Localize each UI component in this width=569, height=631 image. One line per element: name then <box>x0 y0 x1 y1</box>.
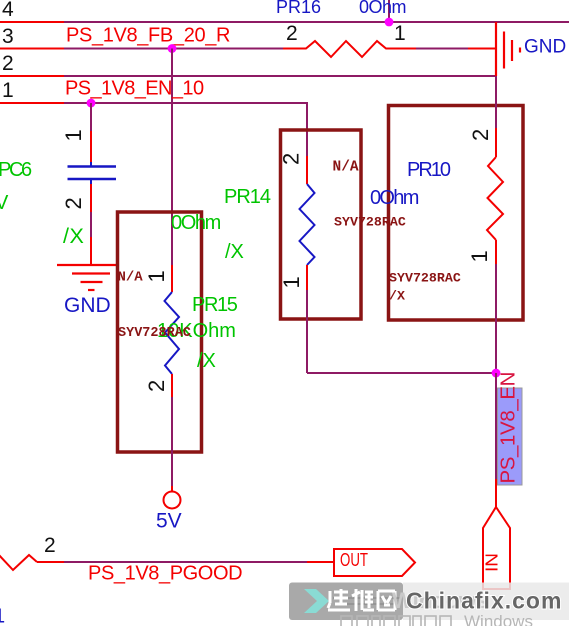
svg-text:1: 1 <box>279 276 304 288</box>
wire horizontal to EN node <box>307 372 496 374</box>
wire PGOOD red stub <box>37 561 64 563</box>
capacitor PC6 bottom lead <box>90 184 92 212</box>
wire EN node red to port <box>495 479 497 507</box>
svg-text:OUT: OUT <box>340 550 368 570</box>
wire PR15 to 5V purple <box>171 397 173 486</box>
svg-text:2: 2 <box>144 380 169 392</box>
svg-text:1: 1 <box>61 129 86 141</box>
svg-text:N/A: N/A <box>333 160 359 176</box>
svg-text:V: V <box>0 192 9 214</box>
svg-text:1: 1 <box>2 79 14 102</box>
wire EN red stub <box>0 102 64 104</box>
svg-text:GND: GND <box>524 37 566 58</box>
wire EN node down purple <box>495 373 497 479</box>
svg-text:PR15: PR15 <box>192 294 238 316</box>
wire FB purple right <box>416 48 468 50</box>
ground G1 bar3 <box>519 48 521 53</box>
component box PR14 <box>281 130 362 319</box>
capacitor PC6 blue lead top <box>90 162 92 167</box>
watermark light band <box>403 583 569 621</box>
ground G2 bar1 <box>57 264 119 266</box>
resistor PR10 body red <box>487 157 503 240</box>
wire net2 red stub <box>0 75 64 77</box>
ground G1 bar1 <box>503 32 505 69</box>
svg-text:PS_1V8_EN: PS_1V8_EN <box>497 372 520 484</box>
watermark teal chevron <box>304 589 329 613</box>
port OUT shape <box>334 549 415 576</box>
svg-text:2: 2 <box>279 153 304 165</box>
watermark bottom gray squares <box>341 616 451 627</box>
wire vertical to net4 <box>388 0 390 22</box>
svg-text:IN: IN <box>482 553 502 572</box>
wire red to 5V circle <box>171 486 173 492</box>
resistor PR16 body <box>283 41 416 57</box>
watermark underlying gray strokes <box>333 598 400 604</box>
svg-text:GND: GND <box>64 294 111 317</box>
resistor PR15 body blue <box>165 292 180 374</box>
watermark gray band <box>289 583 403 621</box>
ground G2 bar3 <box>81 281 103 283</box>
resistor partial bottom left <box>0 554 37 570</box>
ground G1 bar2 <box>511 40 513 61</box>
junction dot EN node <box>492 369 501 378</box>
wire net4 red stub <box>0 21 64 23</box>
PR15 top lead red <box>171 265 173 292</box>
svg-text:SYV728RAC: SYV728RAC <box>118 326 191 341</box>
svg-text:0Ohm: 0Ohm <box>370 187 419 209</box>
wire PR14 down purple <box>306 290 308 373</box>
wire net4 purple <box>64 21 569 23</box>
svg-text:PR16: PR16 <box>276 0 321 17</box>
wire FB purple left <box>64 48 283 50</box>
svg-text:3: 3 <box>2 25 14 48</box>
ground G2 bar4 <box>88 289 95 291</box>
wire PR10 top purple <box>495 76 497 128</box>
svg-text:/X: /X <box>389 289 405 304</box>
watermark glyph xun <box>328 589 350 610</box>
capacitor PC6 blue lead bottom <box>90 179 92 184</box>
svg-text:/X: /X <box>197 350 216 372</box>
component box PR10 <box>389 106 524 321</box>
power symbol 5V circle <box>164 492 181 509</box>
svg-text:Windows: Windows <box>464 612 533 626</box>
capacitor PC6 top lead <box>90 103 92 131</box>
svg-text:2: 2 <box>44 534 56 557</box>
svg-text:5V: 5V <box>156 510 182 533</box>
svg-text:2: 2 <box>468 129 493 141</box>
wire FB red stub <box>0 48 64 50</box>
PR14 top lead red <box>306 156 308 184</box>
component box PR15 <box>118 212 202 452</box>
PR10 top lead red <box>495 128 497 157</box>
svg-text:SYV728RAC: SYV728RAC <box>334 215 406 230</box>
svg-text:0Ohm: 0Ohm <box>359 0 406 17</box>
wire FB red to gnd <box>468 48 497 50</box>
selection highlight box <box>498 388 523 485</box>
svg-text:PR14: PR14 <box>224 186 271 208</box>
svg-text:PS_1V8_PGOOD: PS_1V8_PGOOD <box>88 563 242 585</box>
watermark glyph wang <box>378 591 395 610</box>
svg-text:0Ohm: 0Ohm <box>171 212 221 234</box>
svg-text:2: 2 <box>286 22 298 45</box>
junction dot on EN <box>87 99 96 108</box>
svg-text:1: 1 <box>0 606 5 627</box>
svg-text:1: 1 <box>144 270 169 282</box>
svg-text:N/A: N/A <box>118 270 144 286</box>
PR15 bottom lead red <box>171 374 173 397</box>
ground G1 stem <box>495 22 497 76</box>
wire PGOOD purple <box>64 561 307 563</box>
resistor PR14 body blue <box>300 184 315 265</box>
wire PR10 down purple <box>495 264 497 373</box>
svg-text:PS_1V8_EN_10: PS_1V8_EN_10 <box>65 78 204 100</box>
wire EN purple <box>64 103 307 156</box>
svg-text:/X: /X <box>225 241 244 263</box>
PR10 bottom lead red <box>495 240 497 264</box>
ground G2 bar2 <box>72 272 110 274</box>
junction dot on net4 <box>385 18 394 27</box>
svg-text:1: 1 <box>394 22 406 45</box>
svg-text:Chinafix.com: Chinafix.com <box>406 588 562 614</box>
svg-text:2: 2 <box>61 197 86 209</box>
svg-text:PC6: PC6 <box>0 159 32 181</box>
svg-text:PS_1V8_FB_20_R: PS_1V8_FB_20_R <box>66 25 230 47</box>
svg-text:4: 4 <box>2 0 14 21</box>
wire FB down to PR15 <box>171 49 173 266</box>
wire net2 purple <box>64 75 496 77</box>
svg-text:PR10: PR10 <box>407 159 451 181</box>
svg-text:SYV728RAC: SYV728RAC <box>389 271 461 286</box>
PR14 bottom lead red <box>306 265 308 290</box>
capacitor PC6 plates <box>68 165 117 168</box>
port IN shape <box>483 507 510 589</box>
junction dot on FB <box>168 44 177 53</box>
svg-text:2: 2 <box>2 52 14 75</box>
watermark glyph wei <box>352 589 374 611</box>
svg-text:1: 1 <box>467 250 492 262</box>
svg-text:/X: /X <box>63 224 84 248</box>
